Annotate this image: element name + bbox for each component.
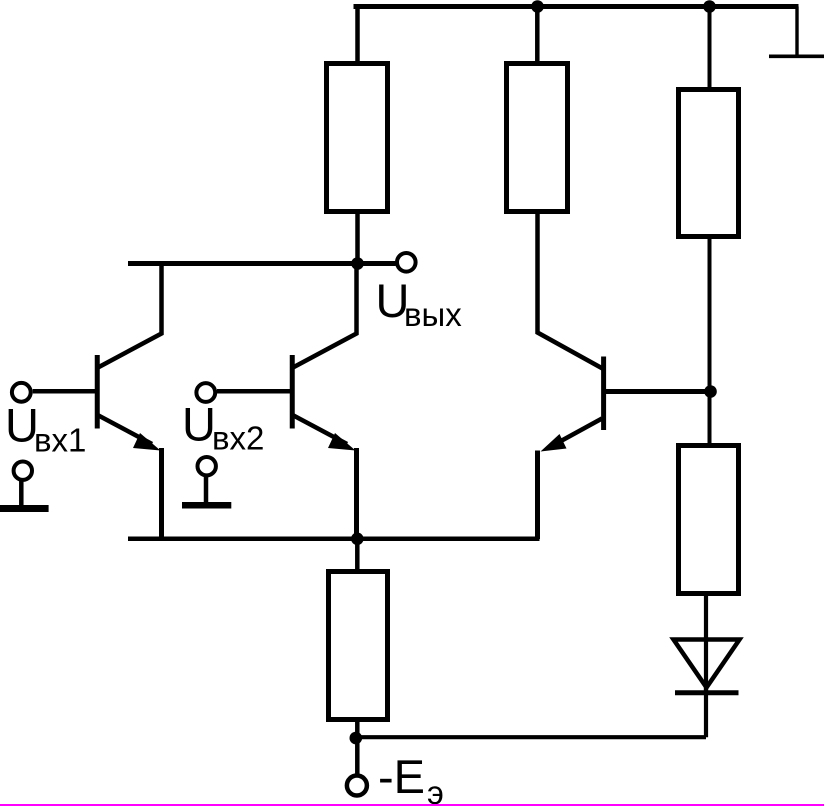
wire: ground 1 stem (19, 479, 24, 506)
wire: Q3 emitter vertical (535, 451, 540, 540)
transistor Q3 emitter arrowhead (541, 434, 567, 452)
wire: R3 top stub (708, 7, 712, 89)
wire: Q2 base lead (217, 389, 290, 394)
terminal: -E circle (347, 776, 367, 796)
wire: R1 bottom stub to output node (355, 212, 360, 264)
wire: common emitter bottom horizontal (128, 537, 540, 542)
wire: output node horizontal (128, 261, 396, 266)
ground 2 bar (182, 502, 231, 509)
transistor Q2 collector (293, 262, 357, 368)
diode VD1 triangle (674, 640, 740, 688)
resistor R3 (679, 90, 739, 237)
svg-text:вых: вых (404, 296, 462, 333)
wire: R4 bottom stub (704, 593, 708, 691)
transistor Q2 base bar (290, 355, 295, 429)
wire: R1 top stub (355, 7, 360, 63)
wire: right rail R3 to R4 (708, 236, 712, 447)
svg-text:U: U (182, 398, 216, 451)
junction: top rail / R3 (703, 0, 716, 13)
svg-text:вх2: вх2 (212, 420, 264, 457)
transistor Q1 collector (98, 262, 162, 368)
junction: emitter node / R5 (351, 533, 364, 546)
terminal: input Uvh1 circle (12, 383, 31, 402)
wire: Q3 base lead (606, 389, 710, 394)
resistor R5 (329, 572, 388, 720)
ground terminal 2 circle (198, 457, 216, 475)
junction: output node (351, 257, 364, 270)
wire: bottom horizontal to diode (356, 735, 706, 739)
ground (top right bar) (769, 54, 824, 58)
transistor Q1 base bar (95, 355, 100, 429)
ground terminal 1 circle (14, 462, 32, 480)
transistor Q3 collector (538, 212, 603, 369)
wire: ground 2 stem (204, 475, 209, 503)
transistor Q1 emitter arrowhead (133, 433, 161, 451)
terminal: input Uvh2 circle (196, 383, 215, 402)
svg-text:э: э (427, 774, 444, 807)
junction: top rail / R2 (531, 0, 544, 13)
wire: Q2 emitter vertical (354, 448, 359, 539)
terminal: Uvyh output circle (397, 253, 416, 272)
wire: R2 top stub (535, 7, 540, 63)
wire: Q1 base lead (33, 389, 95, 394)
resistor R4 (679, 446, 739, 594)
transistor Q3 base bar (601, 357, 606, 431)
resistor R2 (507, 64, 568, 212)
wire: diode bottom stub (704, 687, 708, 737)
transistor Q3 emitter (550, 419, 602, 448)
wire: R5 top stub (355, 539, 360, 572)
resistor R1 (327, 64, 388, 212)
svg-text:вх1: вх1 (34, 422, 86, 459)
transistor Q2 emitter (294, 416, 348, 445)
junction: R5 bottom / wire to diode (350, 732, 363, 745)
wire: Q1 emitter vertical (159, 448, 164, 539)
junction: Q3 base / right rail (704, 385, 717, 398)
transistor Q2 emitter arrowhead (328, 433, 356, 451)
wire: top positive supply rail (354, 4, 799, 9)
ground 1 bar (0, 505, 49, 512)
diode VD1 cathode bar (675, 690, 739, 695)
svg-text:-E: -E (378, 750, 425, 803)
wire: R5 bottom stub to -E terminal (355, 719, 360, 774)
decorative magenta baseline (0, 804, 824, 806)
wire: drop to top-right ground (795, 7, 798, 57)
transistor Q1 emitter (99, 416, 153, 445)
